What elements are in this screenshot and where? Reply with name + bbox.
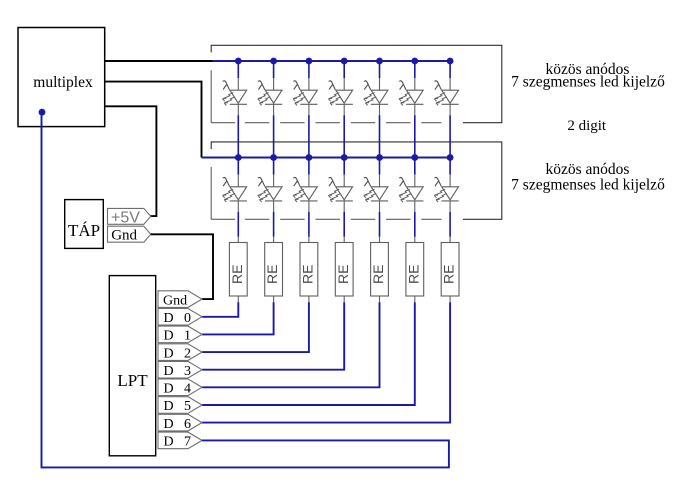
junction dot bus1 col2	[270, 58, 277, 65]
junction dot bus2 col2	[270, 154, 277, 161]
svg-text:közös anódos: közös anódos	[546, 161, 630, 178]
LED D5a	[364, 78, 388, 115]
port tag D2	[158, 344, 202, 362]
port tag D7	[158, 432, 202, 450]
resistor R1	[237, 237, 239, 243]
wire multiplex pin2 to anode bus 2	[105, 82, 202, 158]
wire bus1 to LED D5a	[379, 61, 381, 78]
svg-text:LPT: LPT	[117, 371, 148, 390]
port tag D5	[158, 397, 202, 415]
wire resistor R6 to port D5	[202, 302, 415, 405]
wire bus1 to LED D7a	[449, 61, 451, 78]
wire TAP Gnd to LPT Gnd	[151, 234, 213, 299]
LED D3a	[293, 78, 317, 115]
LED D3b	[293, 175, 317, 212]
wire bus2 to LED D3b	[308, 158, 310, 175]
resistor R3	[308, 237, 310, 243]
wire LED D7a cathode to bus2 junction	[449, 115, 451, 157]
wire D7 to multiplex select (bottom detour)	[42, 112, 449, 467]
LED D4a	[328, 78, 352, 115]
anode bus 1	[213, 60, 451, 62]
power tag Gnd	[108, 226, 151, 243]
junction dot multiplex select	[39, 109, 46, 116]
port tag D0	[158, 309, 202, 327]
junction dot bus1 col3	[306, 58, 313, 65]
wire bus2 to LED D1b	[237, 158, 239, 175]
resistor R2	[273, 237, 275, 243]
wire bus2 to LED D4b	[343, 158, 345, 175]
wire bus2 to LED D5b	[379, 158, 381, 175]
junction dot bus1 col6	[411, 58, 418, 65]
LED D4b	[328, 175, 352, 212]
wire LED D7b cathode to resistor R7	[449, 212, 451, 237]
svg-text:7 szegmenses led kijelző: 7 szegmenses led kijelző	[511, 73, 665, 90]
port tag D4	[158, 379, 202, 397]
junction dot bus1 col7	[447, 58, 454, 65]
wire LED D3b cathode to resistor R3	[308, 212, 310, 237]
wire bus1 to LED D4a	[343, 61, 345, 78]
LED D1a	[223, 78, 247, 115]
LED D5b	[364, 175, 388, 212]
junction dot bus2 col6	[411, 154, 418, 161]
port tag D6	[158, 414, 202, 432]
svg-text:TÁP: TÁP	[68, 221, 100, 240]
wire bus1 to LED D3a	[308, 61, 310, 78]
LED D7b	[434, 175, 458, 212]
wire multiplex pin1 to anode bus 1	[105, 60, 214, 62]
wire LED D5a cathode to bus2 junction	[379, 115, 381, 157]
wire LED D4b cathode to resistor R4	[343, 212, 345, 237]
junction dot bus2 col4	[341, 154, 348, 161]
svg-text:7 szegmenses led kijelző: 7 szegmenses led kijelző	[511, 177, 665, 194]
svg-text:Gnd: Gnd	[163, 293, 187, 308]
LED D2a	[258, 78, 282, 115]
junction dot bus1 col1	[235, 58, 242, 65]
wire multiplex pin3 to +5V	[105, 106, 157, 216]
wire LED D2b cathode to resistor R2	[273, 212, 275, 237]
wire LED D1b cathode to resistor R1	[237, 212, 239, 237]
display module 2 dashed outline	[211, 167, 441, 219]
wire bus2 to LED D6b	[414, 158, 416, 175]
wire LED D2a cathode to bus2 junction	[273, 115, 275, 157]
LPT connector box	[109, 276, 155, 456]
wire LED D4a cathode to bus2 junction	[343, 115, 345, 157]
svg-text:Gnd: Gnd	[111, 228, 137, 244]
wire bus1 to LED D1a	[237, 61, 239, 78]
wire resistor R4 to port D3	[202, 302, 344, 369]
wire LED D6a cathode to bus2 junction	[414, 115, 416, 157]
wire LED D1a cathode to bus2 junction	[237, 115, 239, 157]
junction dot bus2 col1	[235, 154, 242, 161]
LED D1b	[223, 175, 247, 212]
wire resistor R3 to port D2	[202, 302, 309, 352]
wire resistor R5 to port D4	[202, 302, 380, 387]
display module 1 dashed outline	[211, 70, 441, 122]
display module 1 frame	[211, 45, 502, 122]
wire resistor R1 to port D0	[202, 302, 238, 317]
port tag D1	[158, 326, 202, 344]
power tag +5V	[108, 208, 151, 226]
wire LED D5b cathode to resistor R5	[379, 212, 381, 237]
junction dot bus1 col5	[376, 58, 383, 65]
resistor R6	[414, 237, 416, 243]
anode bus 2	[202, 157, 451, 159]
wire LED D6b cathode to resistor R6	[414, 212, 416, 237]
junction dot bus2 col7	[447, 154, 454, 161]
svg-text:+5V: +5V	[111, 209, 140, 226]
port tag Gnd (LPT)	[158, 291, 202, 309]
junction dot bus2 col5	[376, 154, 383, 161]
wire bus1 to LED D6a	[414, 61, 416, 78]
junction dot bus2 col3	[306, 154, 313, 161]
wire resistor R2 to port D1	[202, 302, 274, 334]
LED D7a	[434, 78, 458, 115]
svg-text:2 digit: 2 digit	[567, 118, 607, 134]
wire bus2 to LED D7b	[449, 158, 451, 175]
display module 2 frame	[211, 142, 502, 219]
wire bus2 to LED D2b	[273, 158, 275, 175]
resistor R7	[449, 237, 451, 243]
svg-text:multiplex: multiplex	[33, 74, 93, 91]
TAP power supply box	[65, 200, 104, 249]
wire LED D3a cathode to bus2 junction	[308, 115, 310, 157]
multiplex U1	[18, 28, 105, 127]
resistor R5	[379, 237, 381, 243]
resistor R4	[343, 237, 345, 243]
LED D6a	[399, 78, 423, 115]
LED D6b	[399, 175, 423, 212]
LED D2b	[258, 175, 282, 212]
junction dot bus1 col4	[341, 58, 348, 65]
wire resistor R7 to port D6	[202, 302, 450, 422]
wire bus1 to LED D2a	[273, 61, 275, 78]
port tag D3	[158, 361, 202, 379]
